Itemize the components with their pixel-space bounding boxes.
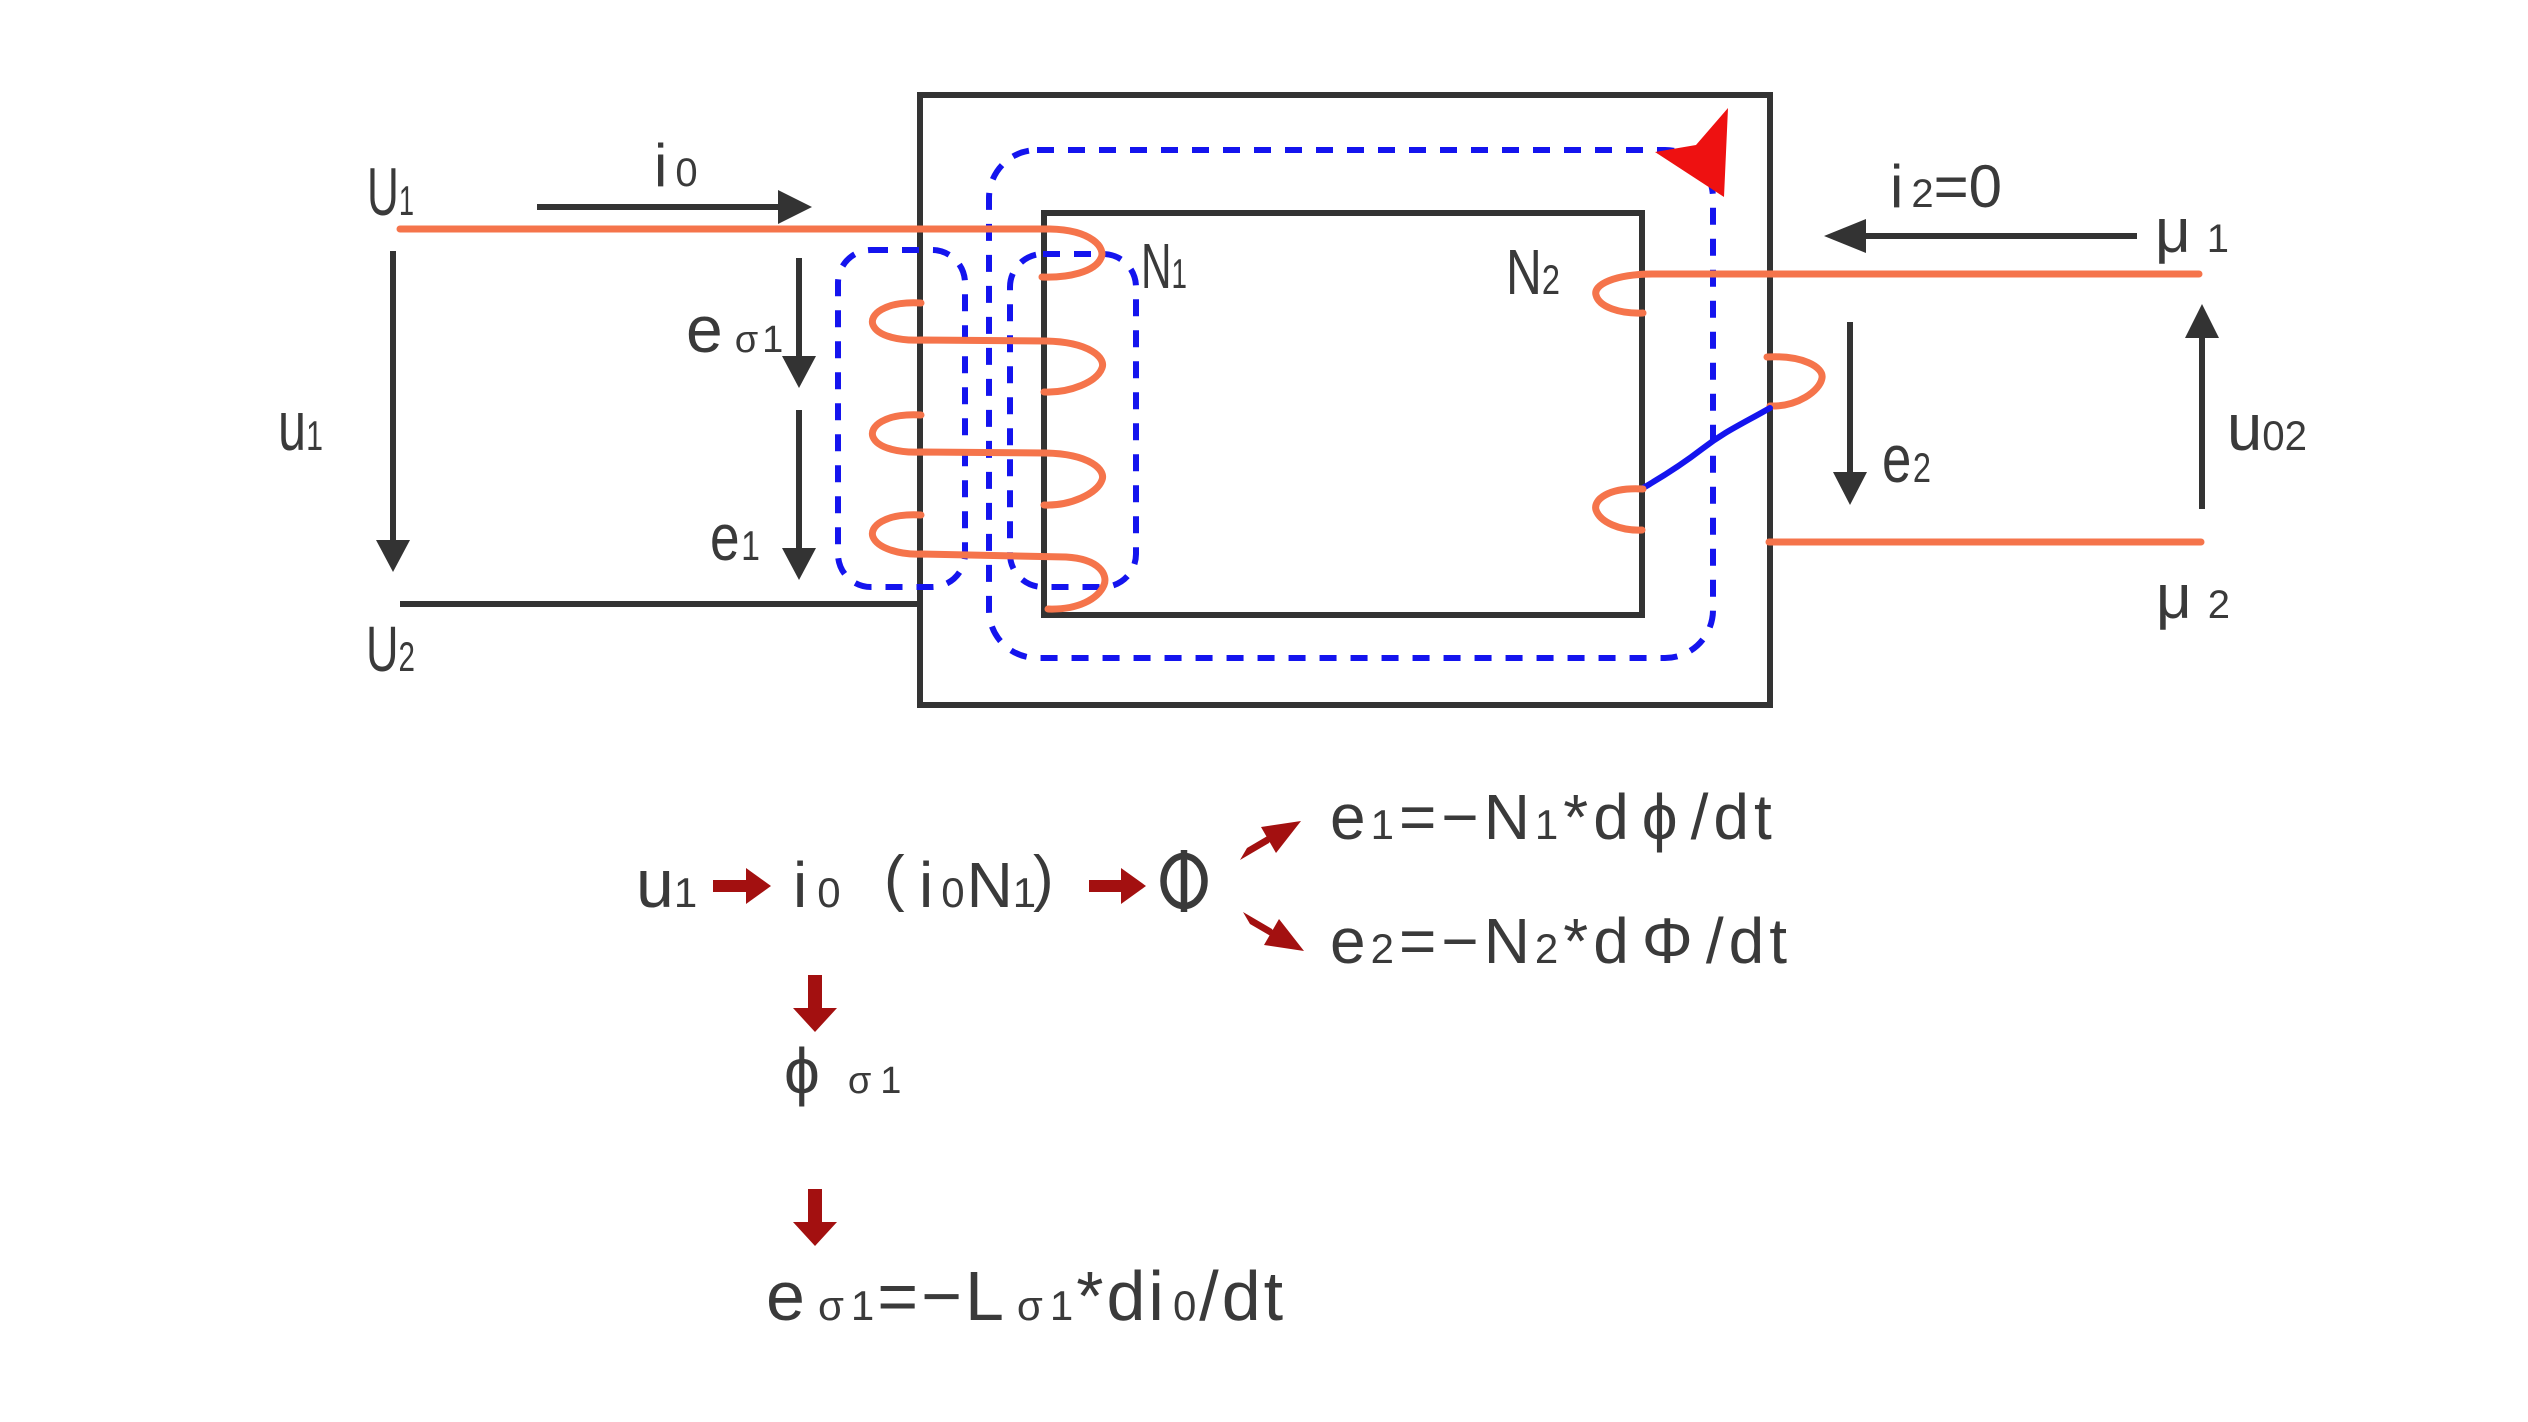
wire N2 bottom output bbox=[1769, 539, 2201, 546]
flowchart down arrow 2 bbox=[793, 1189, 837, 1246]
arrow i0 (current direction) bbox=[537, 204, 782, 210]
leakage flux loop left bbox=[838, 250, 965, 587]
winding N2 bottom turn bbox=[1596, 489, 1643, 530]
arrow i2 (points left) bbox=[1862, 233, 2137, 239]
winding N1 turn 3 bbox=[872, 415, 1102, 505]
flowchart arrow down-right bbox=[1243, 912, 1304, 951]
svg-text:): ) bbox=[1033, 844, 1054, 913]
winding N1 turn 4 bbox=[872, 515, 1105, 609]
transformer core outer bbox=[920, 95, 1770, 705]
flowchart down arrow 1 bbox=[793, 975, 837, 1032]
flowchart: Phi bbox=[1164, 850, 1205, 912]
wire U2 return (black) bbox=[400, 601, 917, 607]
main flux path (dashed blue loop) bbox=[989, 150, 1713, 658]
flowchart arrow up-right bbox=[1240, 821, 1301, 860]
arrow e1 bbox=[796, 410, 802, 550]
arrow u02 (up) bbox=[2199, 336, 2205, 509]
arrow u1 (voltage down) bbox=[390, 251, 396, 542]
winding N1 turn 2 bbox=[872, 303, 1102, 392]
svg-text:(: ( bbox=[884, 844, 905, 913]
arrow e_sigma1 bbox=[796, 258, 802, 358]
flux direction arrowhead (red) bbox=[1655, 108, 1728, 197]
winding N2 top turn + output wire bbox=[1596, 274, 2199, 313]
leakage flux loop right bbox=[1010, 254, 1136, 587]
transformer core window bbox=[1044, 213, 1642, 615]
winding N2 middle turn bbox=[1767, 357, 1822, 406]
winding N2 crossover (blue) bbox=[1643, 408, 1770, 488]
flowchart arrow 1 bbox=[713, 868, 771, 904]
arrow e2 (down) bbox=[1847, 322, 1853, 474]
wire U1 input + winding N1 turn 1 bbox=[400, 229, 1102, 277]
flowchart arrow 2 bbox=[1089, 868, 1146, 904]
